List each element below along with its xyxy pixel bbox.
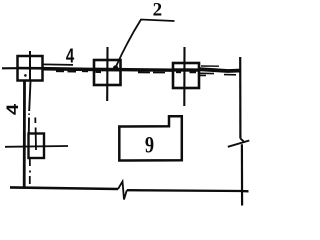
wire left wall inner line: [29, 81, 31, 134]
wire top wall upper thin segment 3: [201, 65, 219, 67]
wire centre line through column C: [183, 47, 185, 106]
wire top wall through column B: [94, 68, 121, 72]
svg-text:4: 4: [66, 44, 74, 67]
column square C top-right: [173, 63, 199, 88]
column square A top-left: [18, 56, 43, 81]
wire top wall main segment 3: [199, 69, 241, 71]
wire top wall upper thin line segment 1: [43, 63, 73, 66]
wire interior blobs in column C: [176, 71, 196, 73]
wire bottom wall left segment: [10, 187, 118, 189]
svg-text:4: 4: [2, 103, 21, 115]
wire top wall main segment 1: [42, 67, 95, 71]
junction dot inside column A: [24, 74, 27, 77]
leader arrow dot: [113, 65, 118, 70]
wire centre line marks of column D: [34, 118, 37, 151]
svg-text:9: 9: [145, 131, 154, 158]
leader line for label 2: [116, 20, 175, 67]
wire interior blob in column B: [96, 71, 102, 73]
svg-text:2: 2: [153, 0, 163, 21]
wire right boundary upper: [239, 57, 241, 139]
wire centre tick through column A: [29, 51, 31, 81]
wire top wall lower thin dash segment 2: [138, 71, 168, 73]
equipment outline with label 9: [119, 116, 182, 160]
column square B top-middle: [94, 60, 121, 85]
wire top wall rough blobs segment 1: [56, 70, 88, 72]
wire top wall lower dashes segment 3: [200, 73, 237, 75]
wire left wall inner dashes below column D: [29, 159, 31, 184]
wire left wall outer line: [23, 81, 26, 188]
wire bottom wall right segment: [127, 190, 249, 191]
wire top wall main segment 2: [120, 68, 174, 72]
wire top wall left stub: [2, 67, 18, 69]
column square D lower-left: [29, 134, 45, 159]
break symbol on right boundary: [228, 139, 250, 147]
wire horizontal grid line through column D: [5, 145, 68, 148]
wire right boundary lower: [241, 144, 243, 205]
wire top wall through column C: [173, 68, 199, 72]
wire top wall through column A: [18, 67, 44, 70]
wire centre line through column B: [106, 47, 108, 101]
break symbol on bottom wall: [118, 182, 127, 200]
